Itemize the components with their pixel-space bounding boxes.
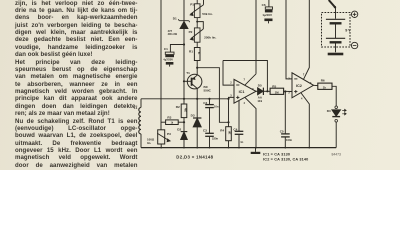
svg-text:C1: C1 (164, 47, 168, 51)
resistor R2 (181, 104, 187, 118)
svg-text:D3: D3 (191, 114, 195, 118)
svg-text:IC2 = CA 3130, CA 3140: IC2 = CA 3130, CA 3140 (263, 157, 308, 161)
resistor R1 (194, 48, 200, 61)
potentiometer P3 (157, 130, 171, 148)
svg-text:D2,D3 = 1N4148: D2,D3 = 1N4148 (176, 154, 213, 159)
svg-text:R2: R2 (176, 105, 180, 109)
svg-text:9 V: 9 V (345, 29, 351, 33)
svg-text:IC2: IC2 (296, 84, 302, 88)
svg-text:R5: R5 (272, 84, 276, 88)
svg-text:D2: D2 (177, 127, 181, 131)
resistor R3 (161, 120, 185, 125)
battery B1 with switch (322, 0, 358, 54)
wire T1 collector to D3 (196, 99, 198, 118)
svg-text:C4: C4 (233, 128, 237, 132)
svg-text:P1: P1 (190, 3, 194, 7)
wire IC2 minus input vertical (286, 0, 292, 79)
node junction D5 feedback (266, 90, 268, 92)
svg-text:C3: C3 (203, 128, 207, 132)
svg-text:1n: 1n (240, 140, 243, 144)
svg-text:400 mW: 400 mW (168, 33, 178, 36)
node junctions on bottom rail (160, 147, 310, 149)
capacitor C3 (205, 133, 214, 147)
svg-text:4µ7/25V: 4µ7/25V (163, 58, 173, 62)
svg-text:P2: P2 (189, 30, 193, 34)
svg-text:D5: D5 (258, 84, 262, 88)
wire supply vertical to P3 (160, 0, 162, 130)
svg-text:C5: C5 (280, 129, 284, 133)
wire P1 P2 R1 chain verticals (196, 0, 198, 48)
svg-text:L1: L1 (134, 106, 138, 110)
svg-text:2: 2 (230, 82, 232, 85)
node junction oscillator node to IC1 plus line (227, 98, 229, 100)
svg-text:C2: C2 (203, 101, 207, 105)
svg-text:D1: D1 (173, 17, 177, 21)
wire emitter node to line A (197, 68, 228, 123)
svg-text:P3: P3 (167, 132, 171, 136)
svg-text:C6: C6 (262, 3, 266, 7)
transistor T1 (184, 61, 202, 99)
svg-text:1M: 1M (275, 91, 280, 95)
op-amp IC1 (223, 0, 256, 148)
capacitor C4 (235, 101, 244, 148)
wire bottom rail (141, 147, 336, 149)
svg-text:R4: R4 (220, 129, 224, 133)
capacitor C1 (electrolytic) (165, 45, 184, 67)
wire long horizontal oscillator node (141, 98, 229, 100)
diode D5 (256, 88, 270, 95)
svg-text:7: 7 (244, 78, 246, 81)
LED D4 (332, 106, 346, 148)
node junction below R1 (196, 67, 198, 69)
svg-text:4: 4 (244, 102, 246, 105)
op-amp IC2 (292, 0, 314, 148)
svg-text:250k lin.: 250k lin. (204, 35, 216, 39)
node junction R5 C5 IC2 plus (284, 90, 286, 92)
potentiometer P1 (189, 0, 203, 18)
svg-text:119: 119 (257, 99, 262, 103)
svg-text:D4: D4 (327, 109, 331, 113)
svg-text:10n: 10n (214, 104, 219, 108)
svg-text:220n: 220n (212, 136, 218, 140)
zener diode D1 (178, 19, 189, 28)
capacitor C6 (electrolytic) (264, 0, 272, 23)
svg-text:IC1: IC1 (239, 90, 245, 94)
svg-text:4: 4 (301, 98, 303, 101)
svg-text:IC1 = CA 3130: IC1 = CA 3130 (263, 153, 290, 157)
svg-text:R1: R1 (189, 50, 193, 54)
svg-text:R3: R3 (167, 116, 171, 120)
svg-text:T1: T1 (186, 71, 190, 75)
resistor R6 (314, 83, 337, 106)
wire feedback loop IC1 (223, 61, 267, 92)
svg-text:1k: 1k (323, 85, 327, 89)
capacitor C5 (281, 92, 290, 148)
diode D3 (193, 118, 201, 148)
svg-text:1M: 1M (230, 131, 232, 134)
svg-text:50k lin.: 50k lin. (202, 12, 213, 16)
wire IC1 plus input line / R4 (229, 97, 235, 126)
resistor R5 (270, 88, 284, 94)
svg-text:84473: 84473 (332, 152, 342, 156)
svg-text:R6: R6 (321, 79, 325, 83)
svg-text:1µ/16V: 1µ/16V (262, 13, 272, 17)
coil L1 (139, 99, 141, 148)
node junction T1 base (183, 80, 185, 82)
node junction C1 branch on D1 line (183, 43, 185, 45)
wire D1 branch vertical (183, 0, 185, 131)
ground symbol below rail (251, 148, 261, 153)
capacitor C2 (205, 98, 214, 133)
svg-text:100n: 100n (286, 138, 292, 142)
svg-text:lin.: lin. (147, 141, 151, 145)
resistor R4 (226, 127, 232, 141)
node junction line A to R4 line (227, 121, 229, 123)
diode D2 (181, 132, 188, 148)
potentiometer P2 with wiper loop (190, 21, 204, 43)
node junction D1 line crosses oscillator node (183, 98, 185, 100)
svg-text:559C: 559C (204, 89, 212, 93)
node junction T1 collector on oscillator node (196, 98, 198, 100)
